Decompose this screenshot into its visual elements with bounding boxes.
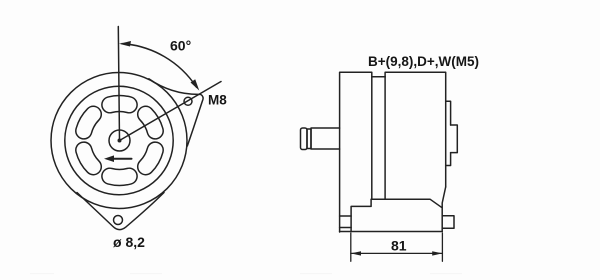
side view: rear terminal tab 2 — [451, 125, 458, 153]
front view: 60° dimension arc — [122, 44, 197, 88]
front view: outer housing circle — [51, 73, 187, 209]
slot top (90°) — [110, 104, 129, 105]
front view: rotation arrow under hub — [112, 158, 132, 160]
svg-text:M8: M8 — [208, 93, 227, 108]
dimension 81: right arrowhead — [432, 251, 442, 255]
side view: shaft end cap — [301, 128, 308, 150]
front view: six ventilation slots (black arc then white arc leaves outline) — [84, 104, 155, 178]
svg-text:60°: 60° — [170, 37, 191, 53]
side view: body bottom edge and slope to foot — [371, 199, 441, 207]
svg-text:————: ———— — [130, 269, 162, 278]
front view: vertical centre line — [118, 27, 119, 141]
front view: shaft hub circle — [109, 130, 130, 151]
front view: bottom lug hole ø8,2 — [114, 216, 123, 225]
side view: shaft — [311, 128, 340, 149]
side view: main body — [385, 72, 446, 187]
arrowhead at diagonal line — [191, 79, 200, 90]
front view: bottom mounting lug — [77, 193, 164, 230]
svg-text:81: 81 — [391, 238, 407, 254]
dimension 81: dimension line — [351, 252, 443, 254]
slot upper-left (150°) — [84, 114, 94, 131]
dimension 81: left arrowhead — [351, 251, 361, 255]
svg-text:B+(9,8),D+,W(M5): B+(9,8),D+,W(M5) — [368, 54, 479, 69]
side view: rear lower chamfer — [442, 187, 446, 232]
side view: left boss tab lines — [340, 216, 352, 228]
front view: hub centre dot — [118, 139, 122, 143]
side view: right boss tab — [442, 216, 454, 228]
side view: rear terminal tab 1 — [446, 101, 451, 125]
side view: mounting foot — [351, 199, 371, 231]
slot upper-right (30°) — [146, 114, 156, 131]
slot bottom (270°) — [110, 176, 129, 177]
side view: shaft washer — [307, 129, 311, 149]
side view: neck step line — [372, 76, 385, 78]
front view: 30° diagonal line through M8 hole — [120, 82, 222, 141]
svg-text:————: ———— — [430, 269, 462, 278]
dimension 81: extension lines — [351, 233, 443, 261]
front view: mounting ear lobe upper right — [149, 79, 203, 146]
side view: front bracket — [340, 72, 372, 232]
slot lower-left (210°) — [84, 150, 94, 167]
svg-text:————: ———— — [300, 269, 332, 278]
svg-text:———: ——— — [30, 269, 54, 278]
slot lower-right (330°) — [146, 150, 156, 167]
front view: M8 ear bolt hole — [184, 97, 192, 105]
arrowhead at vertical line — [119, 41, 131, 47]
side view: foot bottom plate — [340, 231, 443, 233]
front view: inner fan circle — [65, 86, 173, 194]
faint scan marks bottom — [30, 269, 462, 278]
svg-text:ø 8,2: ø 8,2 — [113, 234, 145, 250]
